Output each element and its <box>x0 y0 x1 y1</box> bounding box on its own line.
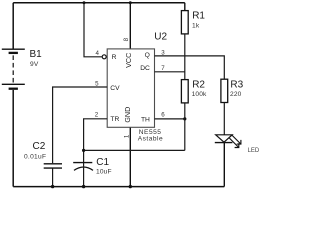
capacitor C2 <box>44 164 62 168</box>
svg-text:GND: GND <box>123 107 132 123</box>
wire pin1 GND to bottom rail <box>129 127 131 186</box>
svg-text:TH: TH <box>141 117 150 124</box>
junction dot bottom rail / C2 <box>51 185 54 188</box>
svg-text:4: 4 <box>96 50 100 57</box>
wire R1 to R2 <box>184 34 186 80</box>
wire battery top lead <box>12 3 14 49</box>
wire R2 down to horizontal <box>184 103 186 150</box>
junction dot bottom rail / pin1 <box>129 185 132 188</box>
wire pin3 Q to R3 <box>155 56 225 79</box>
svg-text:2: 2 <box>95 112 99 119</box>
wire pin4 drop from top rail <box>84 3 102 57</box>
junction dot C1 / feedback wire <box>82 149 85 152</box>
wire C1 to bottom rail <box>83 163 85 187</box>
wire R2 chain to C1 node <box>84 149 185 151</box>
wire C2 to bottom rail <box>52 168 54 187</box>
wire pin2 TR to C1 <box>84 119 108 162</box>
wire pin5 CV to C2 <box>53 87 108 163</box>
junction dot top rail / pin4 <box>83 1 86 4</box>
battery B1 <box>2 49 25 88</box>
svg-text:LED: LED <box>248 148 260 154</box>
svg-text:C2: C2 <box>33 141 46 152</box>
svg-text:C1: C1 <box>96 157 109 168</box>
svg-text:Astable: Astable <box>138 135 164 142</box>
svg-text:TR: TR <box>110 116 119 123</box>
svg-text:R1: R1 <box>192 10 205 21</box>
svg-text:R: R <box>112 54 117 61</box>
svg-text:1: 1 <box>124 134 131 138</box>
wire left rail <box>12 90 14 187</box>
svg-text:9V: 9V <box>30 61 39 68</box>
svg-text:100k: 100k <box>192 91 207 98</box>
wire R3 to LED <box>223 103 225 136</box>
svg-text:DC: DC <box>140 65 150 72</box>
wire top rail corner to R1 <box>184 3 186 11</box>
LED arrows <box>229 135 241 148</box>
capacitor C1 <box>73 163 93 171</box>
wire pin6 TH stub <box>155 118 185 120</box>
wire pin7 DC stub <box>155 71 185 73</box>
resistor R2 <box>181 80 188 103</box>
junction dot top rail / pin8 <box>129 1 132 4</box>
wire top rail <box>13 2 185 4</box>
wire bottom rail <box>13 186 224 188</box>
svg-text:U2: U2 <box>154 31 167 42</box>
svg-text:R3: R3 <box>230 80 243 91</box>
svg-text:R2: R2 <box>192 80 205 91</box>
junction dot bottom rail / C1 <box>82 185 85 188</box>
svg-text:220: 220 <box>230 91 242 98</box>
svg-text:1k: 1k <box>192 22 200 29</box>
svg-text:10uF: 10uF <box>96 168 112 175</box>
svg-text:0.01uF: 0.01uF <box>24 153 46 160</box>
resistor R1 <box>181 11 188 34</box>
svg-text:8: 8 <box>123 37 130 41</box>
svg-text:6: 6 <box>161 112 165 119</box>
wire LED to bottom rail <box>223 143 225 187</box>
resistor R3 <box>221 79 228 102</box>
IC U2 NE555 box <box>107 49 154 127</box>
wire pin8 VCC <box>129 3 131 49</box>
svg-text:7: 7 <box>161 65 165 72</box>
svg-text:CV: CV <box>110 85 120 92</box>
svg-text:Q: Q <box>145 52 150 59</box>
LED D1 <box>215 135 233 143</box>
inversion bubble pin R <box>102 55 106 59</box>
svg-text:5: 5 <box>95 80 99 87</box>
junction dot pin6 / R2 chain <box>183 117 186 120</box>
svg-text:VCC: VCC <box>124 53 133 68</box>
svg-text:B1: B1 <box>30 49 43 60</box>
